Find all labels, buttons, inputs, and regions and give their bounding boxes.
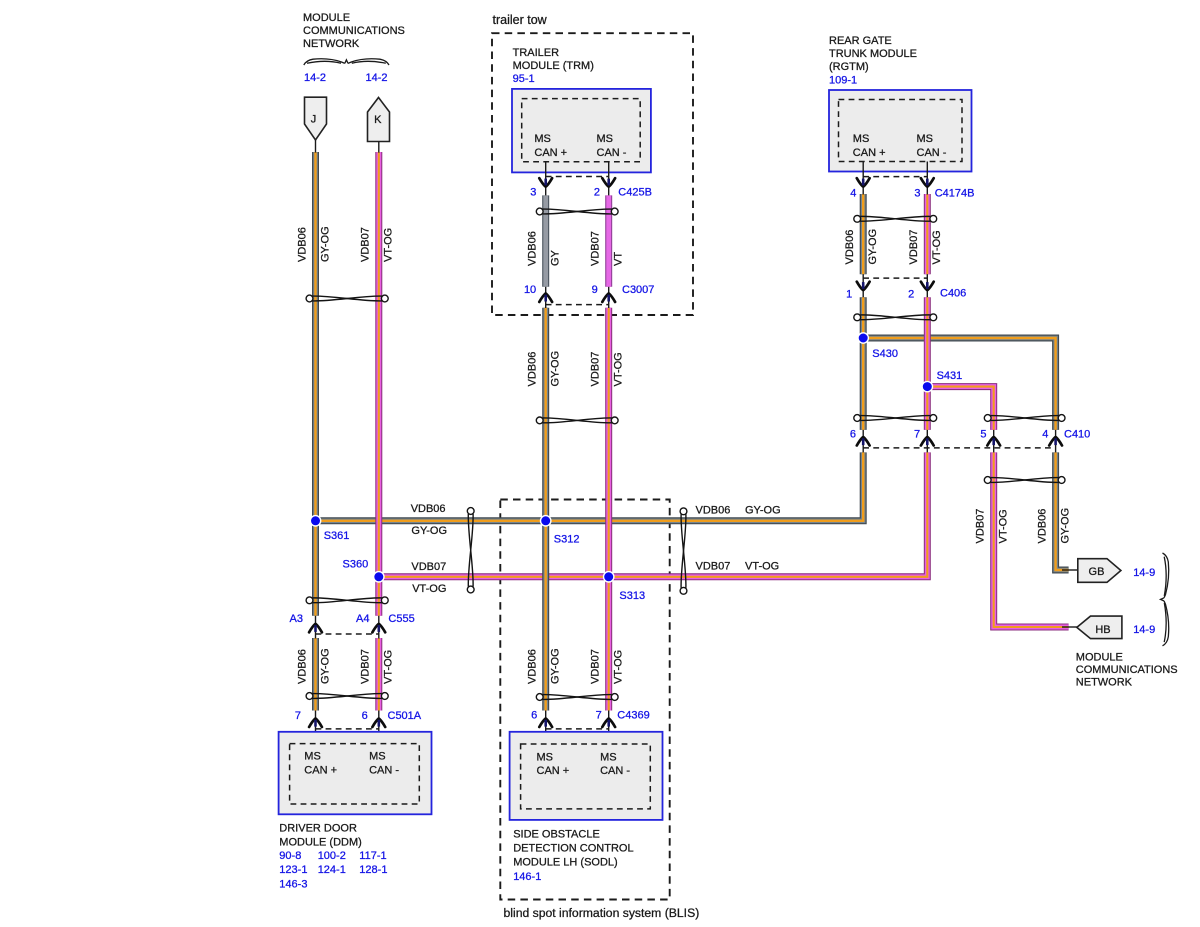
lead C501A pin 6 [378, 711, 380, 744]
svg-text:C406: C406 [940, 288, 966, 300]
lead from K [378, 142, 380, 153]
svg-text:5: 5 [980, 428, 986, 440]
svg-text:GY: GY [550, 249, 562, 266]
svg-text:A4: A4 [356, 613, 369, 625]
splice S312 [541, 516, 551, 526]
lead C4369 pin 7 [608, 711, 610, 745]
svg-text:CAN -: CAN - [917, 147, 947, 159]
wire VDB06 GY-OG C3007 through S312 to SODL C4369 pin 6 [542, 308, 549, 711]
svg-text:GY-OG: GY-OG [319, 648, 331, 684]
lead C410 pin 6 [862, 430, 864, 453]
svg-text:TRUNK MODULE: TRUNK MODULE [829, 48, 917, 60]
splice S360 [374, 572, 384, 582]
svg-text:trailer tow: trailer tow [493, 13, 548, 27]
svg-text:3: 3 [530, 186, 536, 198]
svg-text:9: 9 [592, 284, 598, 296]
svg-text:VDB06: VDB06 [527, 649, 539, 684]
svg-text:MODULE: MODULE [303, 12, 350, 24]
svg-text:MS: MS [304, 751, 321, 763]
svg-text:(RGTM): (RGTM) [829, 61, 869, 73]
svg-text:VDB07: VDB07 [696, 561, 731, 573]
arrow into C555 pin A3 [309, 624, 322, 632]
arrow into C4174B pin 4 [857, 178, 870, 186]
connector C425B dashed line [546, 176, 609, 178]
svg-text:VT-OG: VT-OG [383, 228, 395, 262]
label REAR GATE TRUNK MODULE (RGTM) [829, 35, 917, 73]
svg-text:7: 7 [295, 710, 301, 722]
svg-text:GY-OG: GY-OG [550, 351, 562, 387]
svg-text:NETWORK: NETWORK [303, 38, 360, 50]
svg-text:VT-OG: VT-OG [383, 650, 395, 684]
svg-text:6: 6 [362, 710, 368, 722]
svg-text:C555: C555 [388, 613, 414, 625]
svg-text:DRIVER DOOR: DRIVER DOOR [279, 822, 357, 834]
svg-text:VDB06: VDB06 [527, 352, 539, 387]
svg-text:blind spot information system: blind spot information system (BLIS) [504, 906, 700, 920]
svg-text:J: J [311, 114, 317, 126]
svg-text:GY-OG: GY-OG [745, 504, 781, 516]
svg-text:S360: S360 [343, 559, 369, 571]
label TRAILER MODULE (TRM) [513, 47, 594, 72]
connector GB [1078, 559, 1121, 583]
twisted pair symbol J/K wires [306, 295, 388, 302]
svg-text:VDB06: VDB06 [696, 504, 731, 516]
svg-text:VDB06: VDB06 [1036, 509, 1048, 544]
arrow into C410 pin 5 [987, 437, 1000, 445]
svg-text:MODULE (DDM): MODULE (DDM) [279, 837, 362, 849]
brace over 14-2 references [304, 59, 389, 65]
svg-text:C3007: C3007 [622, 284, 654, 296]
wire VDB07 VT-OG C555 to DDM C501A pin 6 [375, 638, 382, 711]
module box RGTM [829, 90, 972, 172]
svg-text:VDB07: VDB07 [411, 561, 446, 573]
svg-text:4: 4 [850, 187, 856, 199]
arrow into C410 pin 7 [921, 437, 934, 445]
lead C501A pin 7 [315, 711, 317, 744]
svg-text:VDB07: VDB07 [590, 649, 602, 684]
wire VDB07 VT TRM C425B to C3007 [605, 195, 612, 286]
svg-text:GY-OG: GY-OG [550, 648, 562, 684]
label MODULE COMMUNICATIONS NETWORK top left [303, 12, 405, 50]
arrow into C501A pin 6 [372, 719, 385, 727]
twisted pair symbol horizontal run left [467, 508, 474, 593]
svg-text:VDB07: VDB07 [360, 227, 372, 262]
svg-text:GY-OG: GY-OG [411, 525, 447, 537]
splice S361 [310, 516, 320, 526]
svg-text:CAN +: CAN + [853, 147, 886, 159]
svg-text:VDB07: VDB07 [590, 231, 602, 266]
svg-text:S361: S361 [324, 530, 350, 542]
lead to GB [1062, 569, 1078, 571]
svg-text:REAR GATE: REAR GATE [829, 35, 892, 47]
twisted pair symbol below C3007 [536, 417, 618, 424]
svg-text:VT-OG: VT-OG [931, 230, 943, 264]
wire VDB07 VT-OG branch S431 to C410 pin 5 [927, 387, 993, 430]
arrow into C425B pin 3 [539, 178, 552, 186]
arrow into C3007 pin 10 [539, 294, 552, 302]
svg-text:COMMUNICATIONS: COMMUNICATIONS [1076, 664, 1178, 676]
splice S430 [858, 333, 868, 343]
svg-text:VT-OG: VT-OG [745, 561, 779, 573]
svg-text:A3: A3 [290, 613, 303, 625]
wire VDB06 GY-OG C555 to DDM C501A pin 7 [312, 638, 319, 711]
svg-text:VDB07: VDB07 [908, 230, 920, 265]
svg-text:14-9: 14-9 [1133, 624, 1155, 636]
svg-text:VDB06: VDB06 [296, 227, 308, 262]
svg-text:146-1: 146-1 [513, 871, 541, 883]
arrow into C425B pin 2 [602, 178, 615, 186]
svg-text:S430: S430 [872, 348, 898, 360]
lead RGTM MS CAN- to C4174B pin 3 [926, 162, 928, 195]
svg-text:MS: MS [917, 133, 934, 145]
TRM pin labels MS CAN [534, 133, 626, 159]
svg-text:MS: MS [600, 751, 617, 763]
arrow into C410 pin 6 [857, 437, 870, 445]
svg-text:VDB06: VDB06 [527, 231, 539, 266]
svg-text:90-8: 90-8 [279, 850, 301, 862]
svg-text:C410: C410 [1064, 428, 1090, 440]
svg-text:MS: MS [369, 751, 386, 763]
svg-text:10: 10 [524, 284, 536, 296]
lead TRM MS CAN+ to C425B pin 3 [545, 162, 547, 196]
svg-text:VDB06: VDB06 [844, 230, 856, 265]
connector C555 dashed line [316, 633, 379, 635]
label MODULE COMMUNICATIONS NETWORK bottom right [1076, 652, 1178, 689]
lead C555 pin A3 [315, 616, 317, 639]
twisted pair symbol below C406 [854, 314, 937, 321]
wire VDB06 GY-OG C406 pin 1 through S430 to C410 pin 6 [860, 297, 867, 430]
lead C3007 pin 10 [545, 287, 547, 308]
svg-text:100-2: 100-2 [318, 850, 346, 862]
lead C410 pin 5 [993, 430, 995, 453]
arrow into C410 pin 4 [1049, 437, 1062, 445]
SODL pin labels MS CAN [537, 751, 631, 777]
twisted pair symbol above C410 pins 6-7 [854, 415, 937, 422]
splice S431 [922, 381, 932, 391]
connector HB [1077, 616, 1122, 639]
BLIS system dashed box [500, 500, 669, 900]
svg-text:3: 3 [914, 187, 920, 199]
wire VDB07 VT-OG main horizontal S360 to C410 pin 7 [379, 452, 928, 576]
svg-text:VDB07: VDB07 [360, 649, 372, 684]
wire VDB06 GY-OG C410 pin 4 to GB [1056, 452, 1069, 570]
module box SODL [510, 732, 663, 820]
svg-text:K: K [374, 114, 382, 126]
svg-text:109-1: 109-1 [829, 74, 857, 86]
lead C555 pin A4 [378, 616, 380, 639]
svg-text:VDB06: VDB06 [411, 503, 446, 515]
svg-text:VT-OG: VT-OG [412, 583, 446, 595]
svg-text:TRAILER: TRAILER [513, 47, 560, 59]
lead C410 pin 7 [926, 430, 928, 453]
svg-text:95-1: 95-1 [513, 73, 535, 85]
svg-text:GB: GB [1089, 566, 1105, 578]
twisted pair symbol above C4369 [536, 694, 618, 701]
svg-text:C501A: C501A [388, 710, 422, 722]
svg-text:S312: S312 [554, 533, 580, 545]
svg-text:7: 7 [596, 710, 602, 722]
lead TRM MS CAN- to C425B pin 2 [608, 162, 610, 196]
svg-text:123-1: 123-1 [279, 864, 307, 876]
svg-text:1: 1 [846, 289, 852, 301]
svg-text:GY-OG: GY-OG [1059, 508, 1071, 544]
wire VDB07 VT-OG C410 pin 5 to HB [994, 452, 1069, 627]
svg-text:S313: S313 [619, 590, 645, 602]
wire VDB06 GY-OG J to C555 pin A3 [312, 152, 319, 616]
connector C4369 dashed line [546, 728, 609, 730]
svg-text:DETECTION CONTROL: DETECTION CONTROL [513, 843, 633, 855]
lead C406 pin 2 [926, 274, 928, 297]
twisted pair symbol horizontal run right [680, 508, 687, 594]
arrow into C555 pin A4 [372, 624, 385, 632]
svg-text:S431: S431 [937, 370, 963, 382]
svg-text:14-2: 14-2 [366, 72, 388, 84]
connector C501A dashed line [316, 728, 379, 730]
wire VDB07 VT-OG RGTM C4174B to C406 pin 2 [924, 194, 931, 274]
brace right side grouping GB and HB [1161, 553, 1169, 646]
svg-text:GY-OG: GY-OG [319, 226, 331, 262]
svg-text:2: 2 [908, 289, 914, 301]
svg-text:4: 4 [1042, 428, 1048, 440]
svg-text:VT-OG: VT-OG [613, 352, 625, 386]
module box DDM [279, 732, 432, 815]
svg-text:128-1: 128-1 [359, 864, 387, 876]
svg-text:CAN -: CAN - [597, 147, 627, 159]
lead C4369 pin 6 [545, 711, 547, 745]
lead C410 pin 4 [1055, 430, 1057, 453]
svg-text:VT: VT [613, 252, 625, 266]
svg-text:CAN +: CAN + [304, 765, 337, 777]
svg-text:MODULE (TRM): MODULE (TRM) [513, 60, 594, 72]
connector C406 dashed line [863, 277, 927, 279]
arrow into C4369 pin 7 [602, 719, 615, 727]
svg-text:MS: MS [534, 133, 551, 145]
svg-text:CAN -: CAN - [600, 765, 630, 777]
svg-text:6: 6 [531, 710, 537, 722]
trailer tow system dashed box [492, 33, 693, 315]
arrow into C4174B pin 3 [921, 178, 934, 186]
svg-text:CAN +: CAN + [534, 147, 567, 159]
connector K [368, 98, 390, 142]
svg-text:NETWORK: NETWORK [1076, 677, 1133, 689]
svg-text:VT-OG: VT-OG [998, 509, 1010, 543]
svg-text:C425B: C425B [618, 186, 652, 198]
module box TRM [512, 89, 651, 172]
svg-text:MS: MS [597, 133, 614, 145]
svg-text:2: 2 [594, 186, 600, 198]
wire VDB07 VT-OG C3007 through S313 to SODL C4369 pin 7 [605, 308, 612, 711]
svg-text:MODULE LH (SODL): MODULE LH (SODL) [513, 857, 618, 869]
label DRIVER DOOR MODULE (DDM) [279, 822, 362, 848]
svg-text:C4369: C4369 [617, 710, 649, 722]
lead to HB [1062, 626, 1077, 628]
svg-text:6: 6 [850, 428, 856, 440]
arrow into C406 pin 2 [921, 282, 934, 290]
svg-text:117-1: 117-1 [359, 850, 386, 862]
svg-text:VDB06: VDB06 [296, 649, 308, 684]
svg-text:HB: HB [1095, 624, 1110, 636]
references DDM [279, 850, 387, 890]
twisted pair symbol TRM wires [536, 208, 618, 215]
wire VDB07 VT-OG K to C555 pin A4 [375, 152, 382, 616]
svg-text:MS: MS [853, 133, 870, 145]
svg-text:14-9: 14-9 [1133, 567, 1155, 579]
connector C4174B dashed line [863, 176, 927, 178]
twisted pair symbol above C410 pins 5-4 [984, 415, 1065, 422]
svg-text:CAN -: CAN - [369, 765, 399, 777]
lead RGTM MS CAN+ to C4174B pin 4 [862, 162, 864, 195]
wire VDB06 GY-OG branch S430 to C410 pin 4 [863, 338, 1055, 430]
wire VDB06 GY TRM C425B to C3007 [542, 195, 549, 286]
arrow into C4369 pin 6 [539, 719, 552, 727]
arrow into C406 pin 1 [857, 282, 870, 290]
arrow into C501A pin 7 [309, 719, 322, 727]
twisted pair symbol above C555 [306, 597, 388, 604]
connector J [305, 97, 327, 140]
svg-text:MS: MS [537, 751, 554, 763]
connector C3007 dashed line [546, 304, 609, 306]
svg-text:CAN +: CAN + [537, 765, 570, 777]
wire VDB06 GY-OG main horizontal S361 to C410 pin 6 [316, 452, 864, 520]
RGTM pin labels MS CAN [853, 133, 947, 159]
svg-text:VT-OG: VT-OG [613, 650, 625, 684]
svg-text:COMMUNICATIONS: COMMUNICATIONS [303, 25, 405, 37]
svg-text:VDB07: VDB07 [975, 509, 987, 544]
svg-text:7: 7 [914, 428, 920, 440]
twisted pair symbol RGTM wires [854, 215, 937, 222]
svg-text:146-3: 146-3 [279, 878, 307, 890]
label SIDE OBSTACLE DETECTION CONTROL MODULE LH (SODL) [513, 829, 633, 869]
wire VDB06 GY-OG RGTM C4174B to C406 pin 1 [860, 194, 867, 274]
lead C3007 pin 9 [608, 287, 610, 308]
twisted pair symbol above C501A [306, 693, 388, 700]
wire VDB07 VT-OG C406 pin 2 through S431 to C410 pin 7 [924, 297, 931, 430]
DDM pin labels MS CAN [304, 751, 399, 777]
arrow into C3007 pin 9 [602, 294, 615, 302]
svg-text:14-2: 14-2 [304, 72, 326, 84]
connector C410 dashed line [863, 447, 1055, 449]
svg-text:VDB07: VDB07 [590, 352, 602, 387]
lead C406 pin 1 [862, 274, 864, 297]
svg-text:GY-OG: GY-OG [867, 229, 879, 265]
lead from J [315, 140, 317, 153]
svg-text:SIDE OBSTACLE: SIDE OBSTACLE [513, 829, 600, 841]
twisted pair symbol below C410 pins 5-4 [984, 477, 1065, 484]
svg-text:C4174B: C4174B [935, 187, 975, 199]
svg-text:MODULE: MODULE [1076, 652, 1123, 664]
splice S313 [604, 572, 614, 582]
svg-text:124-1: 124-1 [318, 864, 346, 876]
